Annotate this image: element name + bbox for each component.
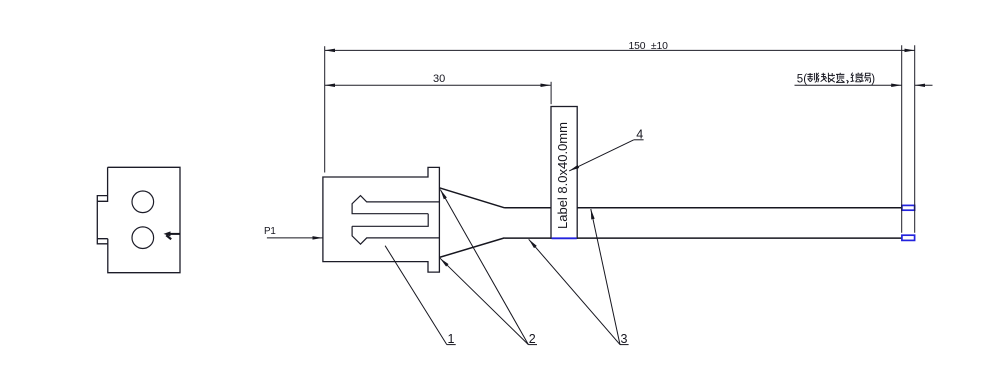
- wire bottom edge: [505, 237, 902, 239]
- pin cavity circle top: [132, 191, 154, 213]
- terminal bottom prong with barb: [352, 226, 439, 244]
- glyph bo (strip): [807, 73, 816, 83]
- dimension 5 text: 5(strip length, tinned): [797, 73, 875, 86]
- tinned wire end bottom (blue): [902, 235, 915, 240]
- dimension 150 +/-10 line: [325, 49, 915, 51]
- callout 3 leader to wire top edge: [591, 209, 620, 345]
- svg-text:1: 1: [448, 332, 455, 346]
- svg-text:30: 30: [433, 73, 445, 85]
- dimension 5 (strip length) line with right arrow: [795, 84, 902, 86]
- svg-text:Label 8.0x40.0mm: Label 8.0x40.0mm: [555, 122, 570, 229]
- callout 3 underline: [620, 344, 629, 346]
- callout 2 underline: [528, 344, 537, 346]
- pin cavity circle bottom: [132, 227, 154, 249]
- callout 4 leader to label: [569, 140, 634, 171]
- tinned wire end top (blue): [902, 205, 915, 210]
- extension line strip start: [901, 45, 903, 233]
- terminal top prong with barb: [352, 196, 439, 214]
- svg-text:3: 3: [621, 332, 628, 346]
- pin-1 indicator arrow: [164, 231, 181, 239]
- glyph xian (wire): [816, 73, 826, 82]
- extension line at label left edge: [550, 82, 552, 104]
- glyph chang (length): [828, 73, 835, 83]
- wire bundle taper bottom: [439, 238, 504, 258]
- svg-text:P1: P1: [264, 226, 276, 237]
- callout 2 leader to taper bottom corner: [440, 258, 528, 344]
- svg-text:5(: 5(: [797, 73, 807, 85]
- fullwidth comma: [847, 80, 849, 83]
- connector P1 front view outline: [97, 167, 180, 272]
- dimension 5 tail arrow: [915, 84, 933, 86]
- wire top edge: [505, 207, 902, 209]
- connector side view housing outline: [323, 167, 440, 272]
- svg-text:150 ±10: 150 ±10: [629, 41, 669, 52]
- P1 leader arrow: [267, 237, 323, 239]
- svg-text:): ): [871, 73, 875, 85]
- callout 2 leader to taper top corner: [440, 190, 528, 345]
- wire bundle taper top: [439, 188, 504, 208]
- glyph du (degree): [836, 73, 845, 83]
- svg-text:2: 2: [529, 332, 536, 346]
- label flag outline: [551, 107, 577, 239]
- callout 4 underline: [634, 139, 644, 141]
- callout 1 leader to housing: [385, 246, 447, 345]
- extension line wire end: [914, 45, 916, 233]
- dimension 30 line: [325, 84, 551, 86]
- extension line left (connector front face): [324, 46, 326, 172]
- terminal cavity slot: [352, 214, 428, 227]
- glyph du2 (plate): [851, 73, 861, 82]
- glyph xi (tin): [860, 73, 870, 83]
- label bottom edge (blue): [552, 237, 577, 239]
- callout 1 underline: [447, 344, 456, 346]
- callout 3 leader to wire bottom edge: [529, 239, 620, 344]
